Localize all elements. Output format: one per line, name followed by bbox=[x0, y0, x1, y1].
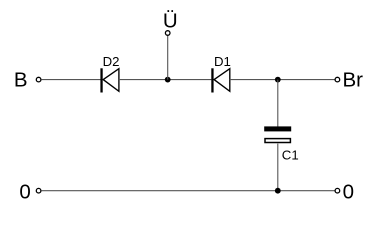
svg-text:C1: C1 bbox=[282, 147, 299, 162]
svg-text:Br: Br bbox=[343, 69, 364, 92]
terminal Ü open circle bbox=[165, 31, 170, 36]
diode D2 cathode bar bbox=[100, 68, 102, 92]
wire D2 to D1 bbox=[119, 79, 211, 81]
svg-text:B: B bbox=[14, 69, 28, 92]
terminal 0 left open circle bbox=[36, 188, 41, 193]
diode D2 triangle bbox=[103, 69, 119, 92]
terminal Br open circle bbox=[335, 77, 340, 82]
svg-text:Ü: Ü bbox=[163, 10, 178, 33]
wire C1 down to bottom rail bbox=[277, 144, 279, 191]
svg-text:D1: D1 bbox=[214, 54, 231, 69]
svg-text:D2: D2 bbox=[103, 54, 120, 69]
diode D1 cathode bar bbox=[211, 68, 213, 92]
svg-text:0: 0 bbox=[343, 181, 354, 204]
wire up to Ü terminal bbox=[167, 36, 169, 80]
junction node on bottom rail bbox=[275, 188, 281, 194]
junction node at Ü tap bbox=[165, 77, 171, 83]
diode D1 triangle bbox=[214, 69, 230, 92]
bottom rail wire 0 to 0 bbox=[42, 190, 335, 192]
capacitor C1 top plate (filled) bbox=[264, 126, 291, 131]
capacitor C1 bottom plate (hollow) bbox=[265, 139, 290, 143]
terminal B open circle bbox=[36, 77, 41, 82]
wire D1 to Br bbox=[230, 79, 335, 81]
junction node above C1 bbox=[275, 77, 281, 83]
wire junction down to C1 bbox=[277, 80, 279, 127]
wire B to D2 bbox=[42, 79, 101, 81]
terminal 0 right open circle bbox=[335, 188, 340, 193]
svg-text:0: 0 bbox=[19, 181, 30, 204]
